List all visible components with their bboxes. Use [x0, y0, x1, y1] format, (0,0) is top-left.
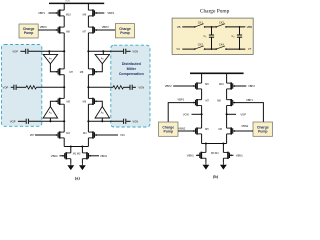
svg-text:M1 M2: M1 M2	[73, 152, 81, 155]
svg-text:VBB: VBB	[247, 25, 253, 29]
svg-text:Distributed: Distributed	[122, 62, 141, 66]
svg-text:M7: M7	[205, 99, 209, 102]
svg-text:VC: VC	[176, 47, 180, 51]
svg-text:VBN1: VBN1	[100, 154, 108, 158]
svg-text:VBP1: VBP1	[177, 98, 184, 102]
svg-text:M7: M7	[83, 31, 87, 34]
svg-text:CK4: CK4	[219, 43, 225, 47]
svg-text:VON: VON	[138, 85, 144, 89]
svg-text:(a): (a)	[75, 175, 80, 180]
svg-text:CK3: CK3	[198, 43, 204, 47]
svg-text:VBP1: VBP1	[246, 98, 253, 102]
svg-text:M3 M4: M3 M4	[211, 152, 219, 155]
svg-text:VBP1: VBP1	[38, 11, 45, 15]
svg-text:CK1: CK1	[198, 20, 204, 24]
svg-text:VT: VT	[248, 47, 252, 51]
svg-text:M5: M5	[67, 101, 71, 104]
svg-text:Charge Pump: Charge Pump	[200, 8, 230, 14]
svg-text:VBN1: VBN1	[51, 154, 59, 158]
svg-text:VB: VB	[177, 25, 181, 29]
svg-text:VDD: VDD	[65, 0, 70, 2]
svg-text:VBP2: VBP2	[248, 84, 255, 88]
svg-text:M5: M5	[205, 128, 209, 131]
svg-text:M7: M7	[69, 71, 73, 74]
svg-text:Pump: Pump	[120, 31, 129, 35]
svg-text:VBN2: VBN2	[178, 126, 186, 130]
svg-text:VOP: VOP	[3, 85, 9, 89]
svg-text:M9: M9	[205, 83, 209, 86]
svg-text:M6: M6	[83, 101, 87, 104]
svg-text:(b): (b)	[213, 174, 219, 179]
svg-text:VBP2: VBP2	[165, 84, 172, 88]
svg-text:M8: M8	[80, 71, 84, 74]
svg-text:Pump: Pump	[164, 129, 173, 133]
svg-text:M8: M8	[217, 99, 221, 102]
svg-text:VOP: VOP	[240, 112, 246, 116]
svg-text:VBP3: VBP3	[40, 25, 47, 29]
svg-text:VBP3: VBP3	[102, 25, 109, 29]
svg-text:M8: M8	[66, 31, 70, 34]
svg-text:Pump: Pump	[24, 31, 33, 35]
svg-text:M10: M10	[219, 83, 224, 86]
svg-text:M4: M4	[83, 132, 87, 135]
svg-text:VIN: VIN	[120, 133, 125, 137]
svg-text:VBN1: VBN1	[236, 153, 244, 157]
svg-text:CK2: CK2	[219, 20, 225, 24]
svg-text:Miller: Miller	[127, 67, 137, 71]
svg-text:VBN1: VBN1	[187, 153, 195, 157]
svg-text:VIP: VIP	[30, 133, 35, 137]
svg-text:VBN2: VBN2	[241, 124, 249, 128]
svg-text:VOP: VOP	[10, 119, 16, 123]
svg-text:VON: VON	[183, 112, 189, 116]
svg-text:VON: VON	[132, 119, 138, 123]
svg-text:M9: M9	[83, 14, 87, 17]
svg-text:M10: M10	[66, 14, 71, 17]
svg-text:M3: M3	[66, 132, 70, 135]
svg-text:VON: VON	[132, 49, 138, 53]
svg-text:VOP: VOP	[12, 49, 18, 53]
svg-text:Pump: Pump	[258, 129, 267, 133]
svg-text:Compensation: Compensation	[119, 72, 144, 76]
svg-text:VBP1: VBP1	[107, 11, 114, 15]
svg-text:M6: M6	[219, 128, 223, 131]
